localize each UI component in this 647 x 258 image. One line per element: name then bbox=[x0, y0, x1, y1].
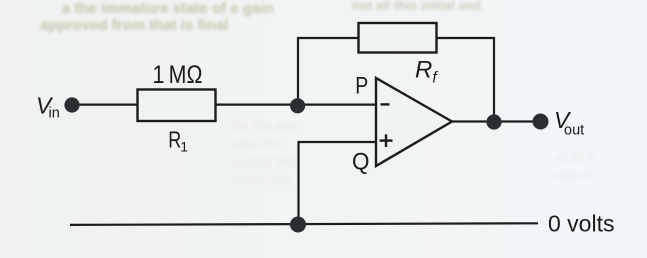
terminal Vin bbox=[64, 97, 79, 112]
wire node to op-amp inverting input bbox=[298, 103, 376, 105]
junction output node bbox=[486, 114, 501, 129]
pin plus sign bbox=[380, 139, 393, 141]
resistor Rf bbox=[359, 23, 437, 53]
pin minus sign bbox=[381, 103, 390, 105]
ghost bleed-through text top bbox=[40, 0, 481, 34]
resistor R1 bbox=[138, 90, 216, 122]
terminal Vout bbox=[533, 114, 549, 130]
op-amp U1 bbox=[376, 78, 452, 166]
wire output junction to Vout terminal bbox=[494, 120, 540, 122]
svg-text:out: out bbox=[564, 123, 584, 139]
wire 0 volt rail bbox=[70, 223, 538, 225]
svg-text:1: 1 bbox=[180, 139, 188, 155]
svg-text:P: P bbox=[355, 73, 368, 100]
wire Rf to right drop bbox=[436, 38, 494, 122]
svg-text:On the app: On the app bbox=[230, 118, 298, 133]
junction node P bbox=[290, 98, 305, 113]
junction ground node bbox=[290, 217, 306, 233]
svg-text:label the: label the bbox=[230, 136, 283, 151]
svg-text:not all this initial and: not all this initial and bbox=[352, 0, 481, 13]
wire Vin to R1 bbox=[72, 103, 138, 105]
ghost bleed-through text middle bbox=[229, 118, 596, 187]
wire feedback riser (node up) bbox=[298, 38, 359, 105]
svg-text:a the immature state of e gain: a the immature state of e gain bbox=[62, 0, 274, 17]
svg-text:supply that: supply that bbox=[230, 154, 300, 169]
svg-text:which the: which the bbox=[229, 172, 290, 187]
svg-text:Q: Q bbox=[352, 149, 370, 176]
svg-text:in: in bbox=[49, 106, 60, 122]
wire non-inverting input bbox=[299, 142, 377, 225]
svg-text:0 volts: 0 volts bbox=[548, 211, 614, 237]
svg-text:approved from that is final: approved from that is final bbox=[40, 17, 228, 34]
wire op-amp output bbox=[452, 120, 494, 122]
wire R1 to node P junction bbox=[215, 103, 298, 105]
svg-text:which: which bbox=[554, 168, 592, 183]
svg-text:1 MΩ: 1 MΩ bbox=[153, 61, 203, 89]
svg-text:at 10 k: at 10 k bbox=[555, 150, 596, 165]
